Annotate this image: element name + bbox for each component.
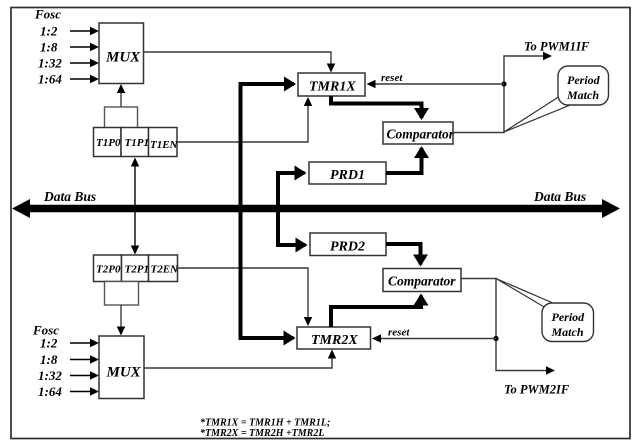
wire MUX2 output to TMR2X bottom: [144, 352, 332, 369]
wire T2 prescale select to MUX2: [120, 305, 122, 334]
svg-text:TMR2X: TMR2X: [311, 333, 358, 348]
svg-text:Comparator: Comparator: [387, 127, 455, 142]
svg-text:1:32: 1:32: [38, 56, 62, 71]
wire reset to TMR2X: [374, 338, 496, 340]
svg-text:Period: Period: [567, 73, 601, 87]
wire Comparator1 output to match point: [453, 56, 550, 133]
svg-text:Match: Match: [566, 88, 599, 102]
svg-text:1:8: 1:8: [40, 352, 58, 367]
wire Fosc 1:2 to MUX1: [70, 30, 97, 32]
wire Fosc 1:64 to MUX2: [70, 391, 97, 393]
svg-text:Fosc: Fosc: [34, 7, 61, 22]
svg-text:*TMR1X = TMR1H + TMR1L;: *TMR1X = TMR1H + TMR1L;: [200, 418, 330, 429]
wire data bus up to T1P1: [134, 160, 136, 206]
box T2 select cap: [105, 282, 139, 306]
data bus: [12, 199, 620, 218]
register PRD1: [309, 162, 386, 184]
svg-text:Period: Period: [552, 310, 586, 324]
wire thick trunk data bus to TMR1X left: [241, 84, 295, 205]
mux MUX1: [99, 23, 144, 84]
wire data bus down to T2P1: [134, 212, 136, 253]
wire Fosc 1:8 to MUX2: [70, 359, 97, 361]
comparator Comparator2: [383, 269, 461, 292]
comparator Comparator1: [383, 122, 455, 144]
callout tail Period Match 2: [496, 279, 554, 308]
svg-text:1:8: 1:8: [40, 40, 58, 55]
wire Comparator2 output to match point and To PWM2IF: [461, 279, 553, 371]
wire thick TMR2X output to Comparator2 bottom: [331, 296, 421, 328]
register bit T1P1: [121, 128, 149, 157]
svg-text:reset: reset: [388, 327, 410, 339]
wire Fosc 1:8 to MUX1: [70, 46, 97, 48]
svg-text:Data Bus: Data Bus: [533, 189, 586, 204]
mux MUX2: [99, 336, 144, 399]
svg-text:TMR1X: TMR1X: [309, 80, 356, 95]
svg-text:1:2: 1:2: [40, 24, 58, 39]
wire thick trunk data bus to PRD1 left: [278, 173, 305, 205]
register bit T1P0: [94, 128, 122, 157]
callout tail Period Match 1: [504, 96, 569, 132]
svg-text:1:64: 1:64: [38, 384, 62, 399]
callout bubble Period Match 1: [558, 66, 609, 105]
wire MUX1 output to TMR1X top: [144, 52, 332, 71]
wire T1EN to TMR1X bottom: [177, 99, 308, 142]
svg-text:Comparator: Comparator: [388, 274, 456, 289]
wire thick trunk data bus to TMR2X left: [241, 212, 294, 338]
svg-text:Data Bus: Data Bus: [43, 189, 96, 204]
wire Fosc 1:32 to MUX2: [70, 375, 97, 377]
wire Fosc 1:2 to MUX2: [70, 342, 97, 344]
register PRD2: [310, 233, 386, 256]
svg-text:To PWM1IF: To PWM1IF: [524, 40, 590, 54]
wire Fosc 1:64 to MUX1: [70, 78, 97, 80]
register bit T2P1: [122, 255, 149, 282]
svg-text:Match: Match: [551, 325, 584, 339]
svg-text:PRD1: PRD1: [330, 168, 365, 183]
register bit T1EN: [149, 128, 179, 157]
wire thick PRD2 output to Comparator2 top: [386, 244, 421, 265]
register TMR2X: [297, 327, 371, 349]
svg-text:T1P0: T1P0: [96, 137, 121, 149]
svg-text:MUX: MUX: [105, 50, 141, 66]
register bit T2P0: [94, 255, 122, 282]
svg-text:T2EN: T2EN: [151, 264, 180, 276]
wire reset to TMR1X: [369, 83, 505, 85]
svg-text:T2P0: T2P0: [96, 264, 121, 276]
wire T2EN to TMR2X top: [178, 268, 309, 324]
svg-text:PRD2: PRD2: [330, 240, 365, 255]
wire thick PRD1 output to Comparator1 bottom: [386, 148, 422, 173]
svg-text:T1P1: T1P1: [125, 137, 149, 149]
wire thick TMR1X output to Comparator1 top: [331, 96, 422, 118]
svg-text:To PWM2IF: To PWM2IF: [504, 383, 570, 397]
svg-text:*TMR2X = TMR2H +TMR2L: *TMR2X = TMR2H +TMR2L: [200, 428, 324, 439]
wire T1 prescale select to MUX1: [120, 86, 122, 107]
box T1 select cap: [105, 107, 138, 128]
svg-text:1:64: 1:64: [38, 72, 62, 87]
junction dot reset2: [493, 336, 498, 341]
svg-text:T2P1: T2P1: [125, 264, 149, 276]
callout bubble Period Match 2: [542, 303, 594, 342]
svg-text:reset: reset: [381, 72, 403, 84]
junction dot reset1: [501, 81, 506, 86]
register bit T2EN: [149, 255, 180, 282]
svg-text:MUX: MUX: [106, 365, 142, 381]
wire thick trunk data bus to PRD2 left: [278, 212, 306, 245]
svg-text:T1EN: T1EN: [150, 139, 179, 151]
svg-text:1:2: 1:2: [40, 336, 58, 351]
register TMR1X: [298, 73, 365, 96]
svg-text:1:32: 1:32: [38, 368, 62, 383]
wire Fosc 1:32 to MUX1: [70, 62, 97, 64]
